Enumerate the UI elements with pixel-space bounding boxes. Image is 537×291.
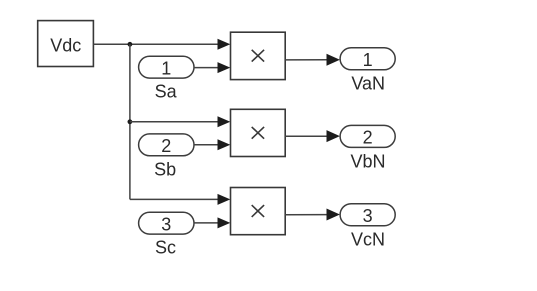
outport 3 VcN [340,204,395,250]
wire elbow to product P3 input 1 [130,194,230,205]
svg-text:VbN: VbN [350,151,385,171]
wire inport Sa to product P1 input 2 [194,62,230,73]
svg-text:2: 2 [363,128,373,148]
inport 1 Sa [139,56,194,101]
wire inport Sc to product P3 input 2 [194,217,230,228]
product block P1 (multiplier) [231,32,286,79]
wire vertical bus from J1 down to row 3 [129,44,131,199]
svg-text:3: 3 [161,214,171,234]
wire J2 to product P2 input 1 [130,116,230,127]
wire inport Sb to product P2 input 2 [194,139,230,150]
inport 3 Sc [139,212,194,257]
svg-text:VaN: VaN [351,73,385,93]
wire product P3 to outport VcN [285,209,340,221]
svg-text:Sc: Sc [155,238,176,258]
wire product P1 to outport VaN [285,54,340,66]
svg-text:1: 1 [363,50,373,70]
outport 2 VbN [340,125,395,171]
svg-text:2: 2 [161,136,171,156]
outport 1 VaN [340,48,395,94]
svg-text:Sa: Sa [155,82,178,102]
node junction J2 [127,119,132,124]
svg-text:1: 1 [161,58,171,78]
svg-text:Vdc: Vdc [50,35,81,55]
wire Vdc output to product P1 input 1 [93,39,230,50]
block Vdc (constant source) [38,21,94,67]
inport 2 Sb [139,134,194,180]
svg-text:Sb: Sb [154,160,176,180]
product block P2 (multiplier) [231,109,286,156]
svg-text:3: 3 [363,206,373,226]
product block P3 (multiplier) [231,188,286,235]
node junction J1 [127,42,132,47]
wire product P2 to outport VbN [285,130,340,142]
svg-text:VcN: VcN [351,230,385,250]
